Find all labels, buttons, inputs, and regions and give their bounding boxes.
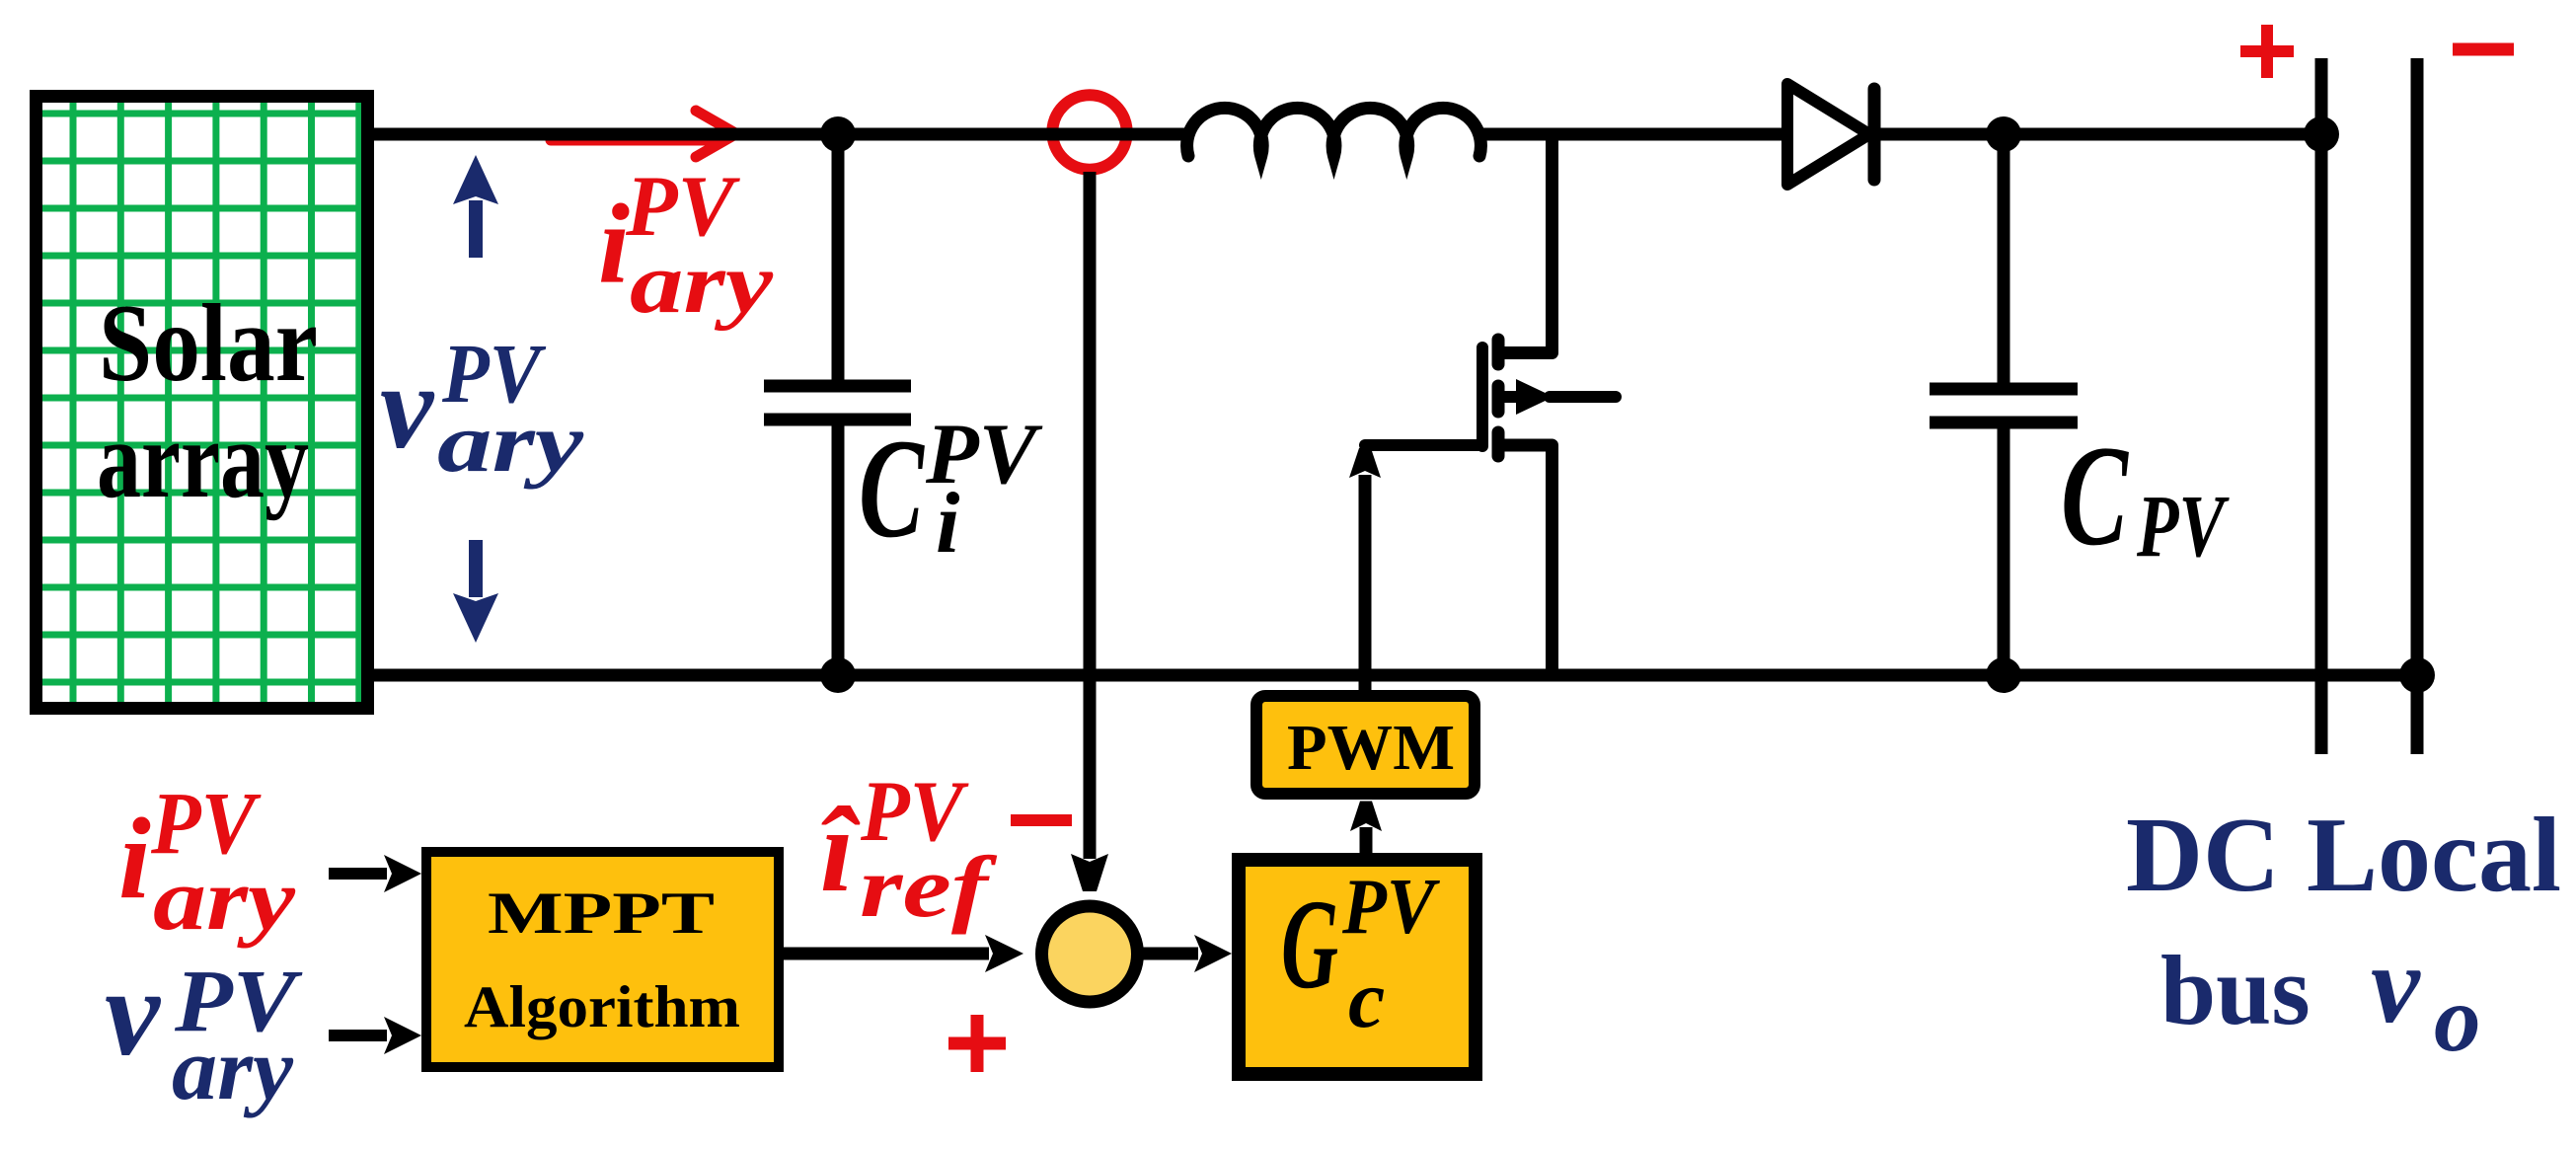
current sensor (red circle)	[1052, 95, 1126, 169]
minus sign (red) at - bus	[2453, 43, 2514, 56]
label i_ref PV (red, reference)	[820, 764, 998, 936]
gate drive wire from PWM	[1359, 475, 1372, 796]
svg-text:ary: ary	[172, 1021, 294, 1118]
wire bottom rail	[367, 669, 2417, 682]
svg-text:i: i	[936, 476, 960, 572]
svg-text:Solar: Solar	[99, 282, 318, 405]
svg-text:ary: ary	[153, 851, 296, 949]
svg-text:DC Local: DC Local	[2126, 797, 2561, 914]
svg-text:PV: PV	[2136, 478, 2230, 575]
label DC Local bus v_o	[2126, 797, 2561, 1071]
node F: bottom wire / - bus junction	[2399, 657, 2435, 693]
node C: top wire / C_PV junction	[1986, 116, 2021, 152]
label i_ary PV (red, top wire)	[598, 159, 774, 332]
svg-text:PWM: PWM	[1287, 712, 1455, 784]
solar array PV panel	[37, 97, 368, 709]
channel bar bottom	[1492, 432, 1505, 456]
inductor L	[1187, 108, 1481, 156]
node A: top wire / Ci junction	[820, 116, 856, 152]
node B: bottom wire / Ci junction	[820, 657, 856, 693]
node E: top wire / + bus junction	[2304, 116, 2339, 152]
blue arrow down (voltage -)	[469, 540, 483, 597]
svg-text:c: c	[1348, 954, 1385, 1045]
svg-text:C: C	[2061, 416, 2129, 575]
body lead	[1498, 391, 1518, 403]
svg-text:bus: bus	[2160, 935, 2311, 1045]
svg-text:v: v	[105, 945, 162, 1082]
red current arrow i_ary (under top wire)	[551, 111, 736, 157]
Gc PV controller box	[1239, 860, 1476, 1074]
label v_ary PV (blue, MPPT input)	[105, 945, 303, 1118]
PWM box	[1256, 696, 1475, 794]
arrow Gc to PWM	[1360, 827, 1373, 855]
blue arrow up (voltage +)	[469, 200, 483, 258]
svg-text:o: o	[2434, 966, 2481, 1071]
sensor signal wire down to summing junction	[1084, 172, 1097, 859]
capacitor C_PV	[1930, 134, 2078, 675]
arrow v input to MPPT	[329, 1030, 387, 1041]
summing junction	[1042, 906, 1138, 1002]
svg-text:ary: ary	[437, 395, 584, 490]
svg-text:Algorithm: Algorithm	[464, 974, 740, 1039]
svg-text:i: i	[118, 794, 151, 923]
gate bar	[1477, 347, 1488, 446]
body arrow of MOSFET	[1516, 379, 1553, 415]
svg-text:v: v	[380, 341, 435, 474]
svg-text:C: C	[859, 411, 925, 568]
plus sign (red) at summing node	[948, 1015, 1006, 1072]
svg-text:ary: ary	[630, 236, 774, 332]
channel bar top	[1492, 340, 1505, 364]
label i_ary PV (red, MPPT input)	[118, 775, 296, 949]
transistor Q1 (MOSFET)	[1482, 134, 1616, 675]
svg-text:MPPT: MPPT	[488, 881, 715, 946]
svg-text:array: array	[97, 399, 309, 521]
node D: bottom wire / C_PV junction	[1986, 657, 2021, 693]
arrow i input to MPPT	[329, 868, 387, 880]
label C_PV	[2061, 416, 2230, 575]
svg-text:G: G	[1281, 874, 1338, 1016]
svg-text:PV: PV	[1341, 864, 1440, 951]
label Ci PV	[859, 407, 1043, 572]
channel bar middle	[1492, 386, 1505, 412]
drain lead	[1498, 134, 1553, 353]
MPPT algorithm box	[426, 852, 779, 1067]
arrow MPPT output to summing node	[780, 948, 989, 960]
wire top rail right of inductor	[1479, 128, 2321, 141]
capacitor Ci PV	[764, 134, 911, 675]
source lead	[1498, 445, 1553, 675]
wire top rail left of inductor	[367, 128, 1184, 141]
label v_ary PV (blue, at array)	[380, 326, 584, 490]
svg-text:ref: ref	[860, 840, 998, 936]
minus sign (red) at summing node	[1011, 814, 1072, 826]
DC bus - line	[2411, 58, 2424, 754]
diode D	[1787, 84, 1874, 185]
svg-text:v: v	[2371, 924, 2421, 1046]
plus sign (red) at + bus	[2240, 25, 2294, 78]
DC bus + line	[2315, 58, 2328, 754]
arrow summing node to Gc	[1140, 948, 1198, 960]
